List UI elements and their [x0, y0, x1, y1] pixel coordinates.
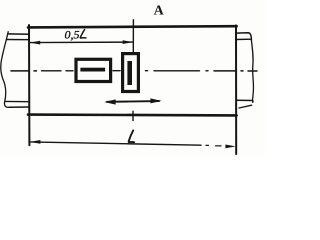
double arrow left head: [104, 99, 115, 104]
slot window (front view) outline: [123, 54, 139, 92]
right break line: [251, 40, 253, 101]
movement double arrow: [107, 100, 159, 103]
shaft body left edge / extension line: [28, 25, 30, 145]
shaft body bottom edge: [28, 113, 237, 116]
left stub thread bottom line: [5, 100, 29, 102]
arrowhead left of L: [30, 140, 41, 144]
double arrow right head: [150, 98, 161, 103]
left break line: [1, 32, 9, 108]
slot hole bar (side view): [80, 68, 105, 72]
slot centreline tick across bottom edge: [132, 111, 134, 120]
right stub hook top line: [236, 33, 251, 40]
right stub thread bottom line: [236, 100, 253, 102]
label L glyph (top, italic): [80, 30, 86, 38]
arrowhead right of 0,5L: [123, 40, 134, 44]
bottom dimension line L: [30, 142, 201, 145]
right stub outer bottom hook: [239, 105, 252, 108]
arrowhead right of L: [225, 145, 235, 149]
left stub outer top edge: [8, 33, 29, 35]
slot window (side view) outline: [76, 59, 111, 81]
svg-text:0,5: 0,5: [65, 27, 80, 41]
extension line at slot centre: [132, 20, 134, 54]
left stub outer bottom edge: [9, 106, 29, 108]
centerline (axis, dash-dot): [11, 70, 257, 72]
shaft body top edge: [28, 26, 237, 27]
slot hole bar (front view): [127, 61, 132, 85]
svg-text:A: A: [154, 4, 165, 19]
shaft body right edge / extension line: [235, 25, 237, 154]
right stub thread top line: [236, 38, 251, 40]
dimension line 0,5L: [30, 41, 133, 44]
label l glyph (bottom, italic): [129, 130, 134, 142]
arrowhead left of 0,5L: [30, 41, 41, 45]
left stub thread top line: [7, 39, 30, 41]
